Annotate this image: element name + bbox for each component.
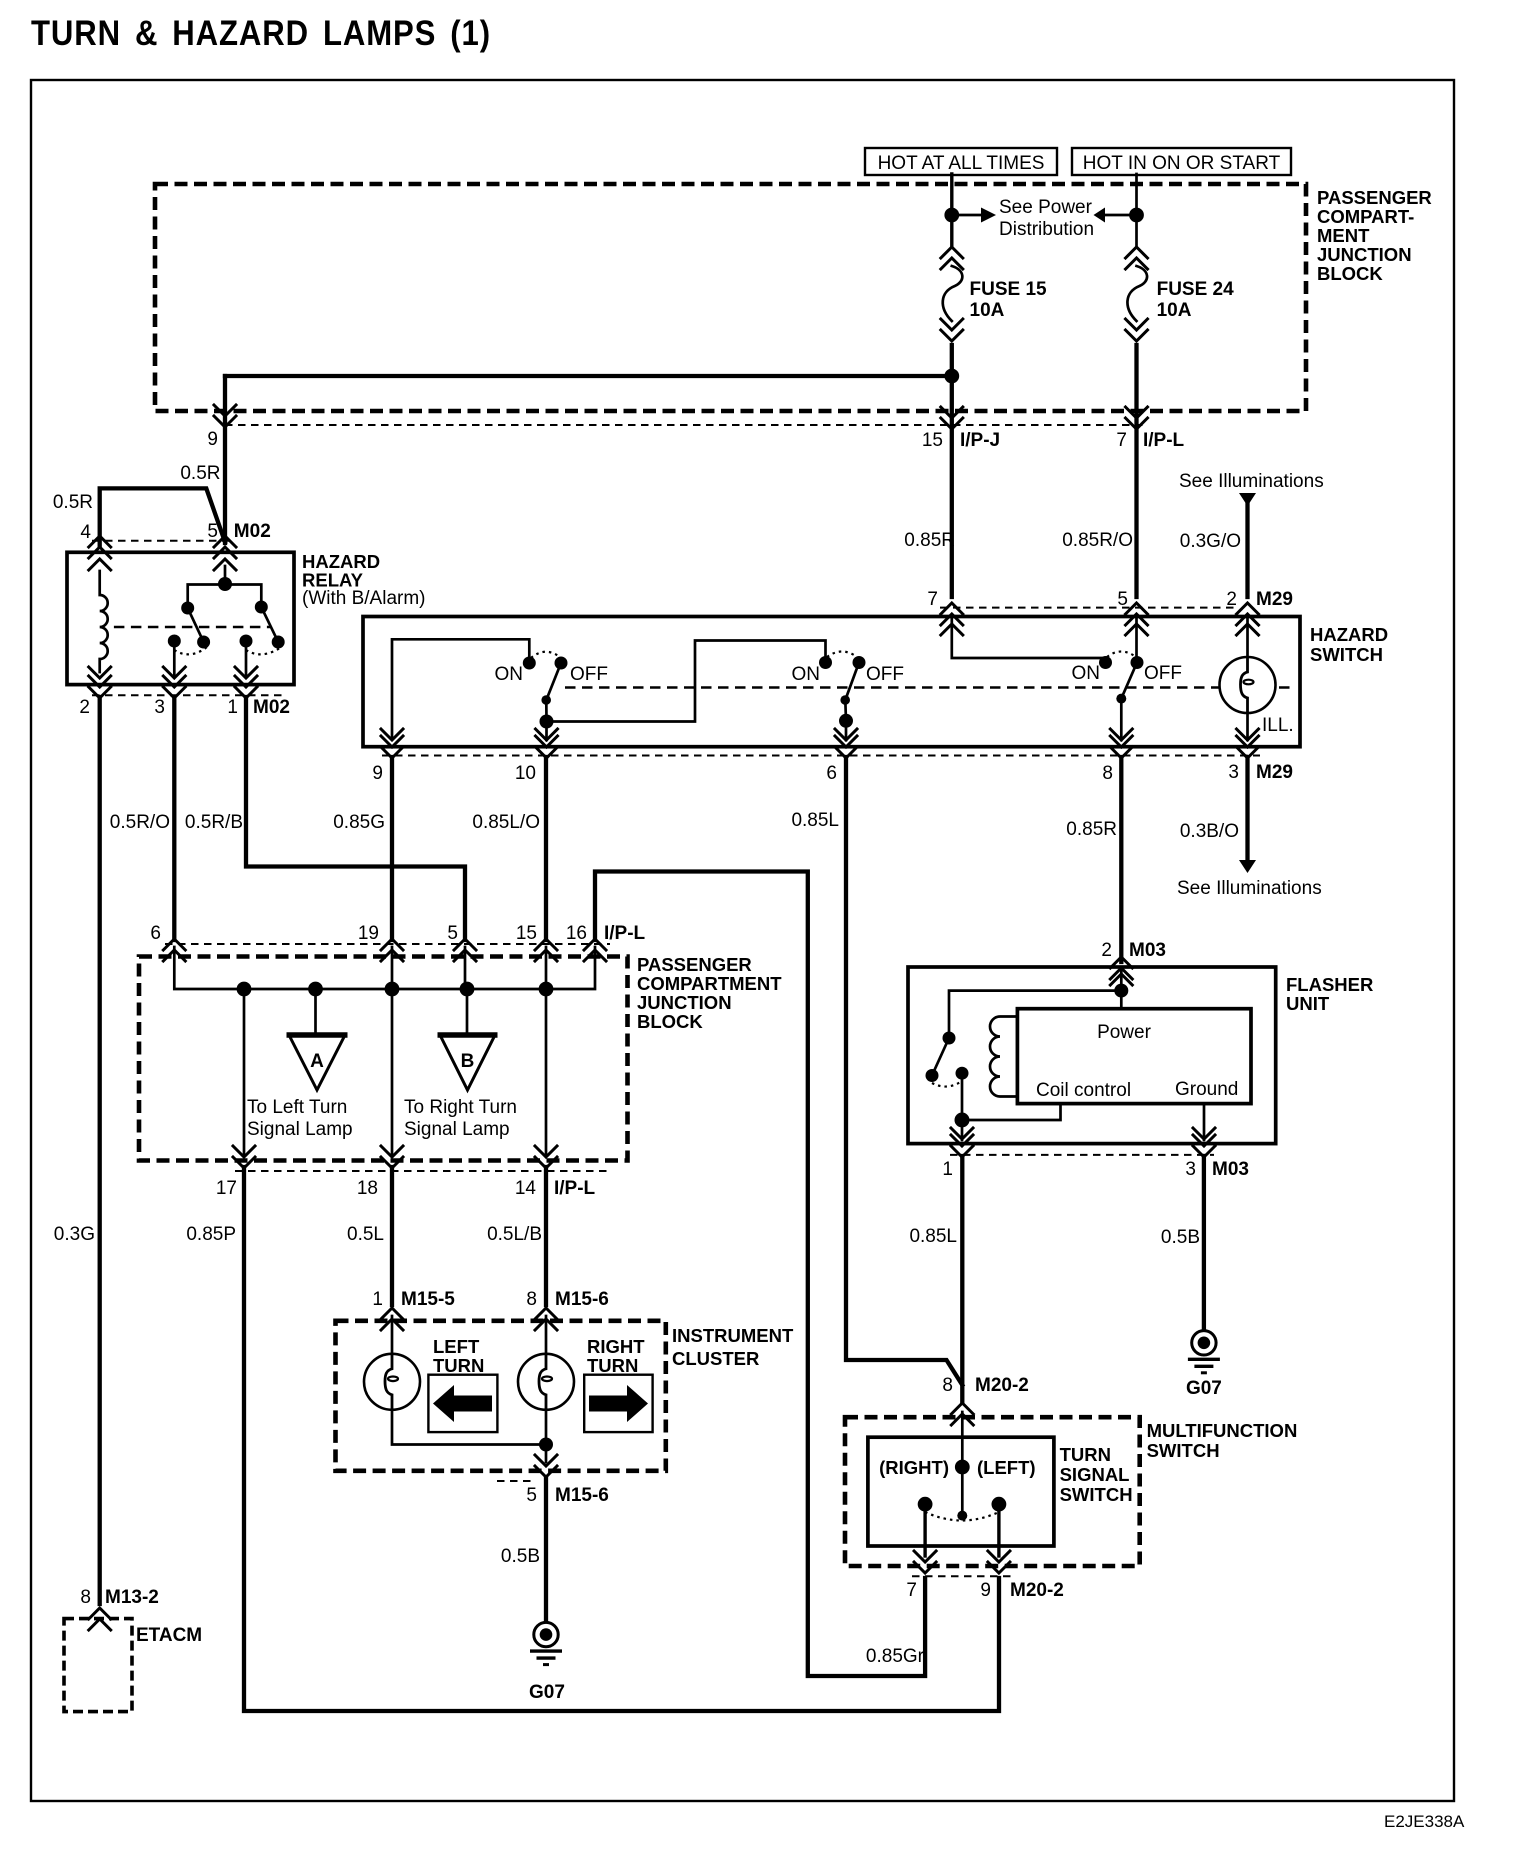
wire bus to connector 17: [243, 989, 246, 1155]
wire 0.85L flasher pin 1 down to M20-2 pin 8: [960, 1156, 964, 1402]
flasher blade: [932, 1038, 949, 1076]
passenger compartment junction block (top): [155, 184, 1306, 411]
svg-text:10A: 10A: [970, 300, 1005, 321]
contact dot left fixed: [181, 602, 194, 615]
svg-text:2: 2: [1101, 940, 1112, 961]
instrument cluster dashed box: [336, 1321, 666, 1471]
svg-text:0.3B/O: 0.3B/O: [1180, 821, 1239, 842]
svg-text:7: 7: [927, 589, 938, 610]
svg-text:5: 5: [1117, 589, 1128, 610]
connector 18 I/P-L bottom: [381, 1146, 403, 1168]
svg-text:BLOCK: BLOCK: [637, 1011, 703, 1032]
svg-text:3: 3: [1185, 1159, 1196, 1180]
svg-text:MENT: MENT: [1317, 225, 1370, 246]
svg-text:Coil control: Coil control: [1036, 1080, 1131, 1101]
lamp ILL wire bottom: [1246, 713, 1249, 740]
thin dashed connector row M29 bottom: [382, 755, 1260, 757]
svg-text:M29: M29: [1256, 762, 1293, 783]
svg-text:0.85R/O: 0.85R/O: [1062, 530, 1133, 551]
connector 8 M20-2: [951, 1403, 973, 1425]
svg-text:G07: G07: [529, 1682, 565, 1703]
svg-text:0.5L/B: 0.5L/B: [487, 1224, 542, 1245]
svg-text:6: 6: [826, 763, 837, 784]
svg-text:B: B: [461, 1051, 475, 1072]
svg-text:FLASHER: FLASHER: [1286, 974, 1373, 995]
svg-text:LEFT: LEFT: [433, 1336, 480, 1357]
relay internal dashed line: [114, 626, 270, 629]
svg-text:0.5L: 0.5L: [347, 1224, 384, 1245]
svg-text:0.85L/O: 0.85L/O: [472, 812, 540, 833]
wire fuse 15 to connector 15 I/P-J: [950, 345, 954, 597]
relay blade right: [261, 607, 278, 642]
svg-text:2: 2: [79, 697, 90, 718]
svg-text:M20-2: M20-2: [1010, 1580, 1064, 1601]
wire 0.5B cluster pin 5 down to ground: [544, 1478, 548, 1621]
svg-text:I/P-L: I/P-L: [604, 923, 646, 944]
hazard switch internal dashed line: [565, 686, 1292, 689]
svg-text:SWITCH: SWITCH: [1147, 1440, 1220, 1461]
svg-text:ON: ON: [792, 664, 821, 685]
node flasher power: [1114, 984, 1128, 998]
svg-text:HAZARD: HAZARD: [1310, 624, 1388, 645]
node HOT IN ON OR START: [1072, 148, 1291, 175]
wire to See Power Distribution (right arrow): [952, 214, 982, 217]
wire junction bus: [174, 947, 595, 989]
contact dot flasher top: [943, 1032, 956, 1045]
svg-text:HOT IN ON OR START: HOT IN ON OR START: [1083, 153, 1281, 174]
wire 0.5R/B pin1 jog down to junction 5: [246, 697, 465, 940]
svg-text:5: 5: [447, 923, 458, 944]
ground G07 (right): [1188, 1331, 1220, 1373]
svg-text:15: 15: [922, 430, 943, 451]
fuse FUSE 24 10A: [1126, 247, 1148, 341]
node coil control junction: [955, 1113, 970, 1128]
svg-text:OFF: OFF: [1144, 663, 1182, 684]
connector 1 M02: [235, 676, 257, 698]
pin 3 exit arrow: [1237, 729, 1259, 740]
thin dashed connector row M02 bottom: [92, 694, 282, 696]
wire 0.85R pin8 down to flasher pin 2: [1119, 757, 1123, 962]
svg-text:M03: M03: [1129, 940, 1166, 961]
pin 2 entry arrow: [1237, 624, 1259, 635]
multifunction switch dashed box: [845, 1417, 1140, 1566]
svg-text:0.5R: 0.5R: [180, 463, 220, 484]
contact dot sw3 OFF: [1131, 656, 1144, 669]
thin dashed connector row I/P-L top: [165, 943, 610, 945]
node cluster lamp junction: [539, 1438, 553, 1452]
svg-text:See Power: See Power: [999, 197, 1093, 218]
pin 2 entry arrow: [1110, 974, 1132, 985]
svg-text:M15-6: M15-6: [555, 1485, 609, 1506]
svg-text:19: 19: [358, 923, 379, 944]
wire 0.5R jog from pin 9 to relay pins 4/5: [100, 488, 225, 545]
svg-text:0.5B: 0.5B: [1161, 1227, 1200, 1248]
svg-text:0.3G/O: 0.3G/O: [1180, 531, 1241, 552]
contact dot RIGHT: [918, 1497, 933, 1512]
ground G07 (left): [530, 1622, 562, 1664]
contact dot sw2 OFF: [853, 656, 866, 669]
svg-text:9: 9: [980, 1580, 991, 1601]
lamp LEFT TURN indicator: [364, 1354, 420, 1410]
svg-text:PASSENGER: PASSENGER: [1317, 187, 1432, 208]
wire sw1 pole to pin 10: [545, 722, 548, 741]
relay blade left: [188, 608, 204, 642]
svg-text:E2JE338A: E2JE338A: [1384, 1812, 1465, 1831]
svg-text:BLOCK: BLOCK: [1317, 263, 1383, 284]
switch blade sw1: [546, 663, 561, 722]
pin 5 entry arrow: [1126, 624, 1148, 635]
svg-text:COMPART-: COMPART-: [1317, 206, 1414, 227]
pin 3 exit arrow: [1193, 1128, 1215, 1139]
svg-text:FUSE 15: FUSE 15: [970, 279, 1048, 300]
contact dot sw1 ON: [523, 657, 536, 670]
flasher inner module box: [1017, 1009, 1251, 1104]
wire pin 9 to contact 1 ON: [392, 639, 529, 738]
svg-text:14: 14: [515, 1178, 537, 1199]
wire 0.3B/O pin3 down to See Illuminations: [1245, 757, 1249, 860]
svg-text:0.3G: 0.3G: [54, 1224, 95, 1245]
wire right lamp to junction: [545, 1410, 548, 1462]
connector 9 M29: [381, 736, 403, 758]
svg-text:ON: ON: [1072, 663, 1101, 684]
svg-text:(LEFT): (LEFT): [977, 1457, 1036, 1478]
thin dashed row M15-6 bottom: [497, 1480, 536, 1482]
connector 19 I/P-L: [381, 939, 403, 961]
wire bus to connector 14: [545, 989, 548, 1155]
wire pin 2 to power node: [1120, 968, 1123, 1009]
svg-text:M15-6: M15-6: [555, 1289, 609, 1310]
svg-text:Signal Lamp: Signal Lamp: [404, 1119, 510, 1140]
svg-text:Ground: Ground: [1175, 1079, 1238, 1100]
svg-text:9: 9: [372, 763, 383, 784]
connector 6 I/P-L: [163, 939, 185, 961]
svg-text:ETACM: ETACM: [136, 1625, 202, 1646]
svg-text:TURN: TURN: [1060, 1444, 1111, 1465]
connector 7 I/P-L: [1126, 407, 1148, 429]
wire pole down to coil control node: [961, 1073, 964, 1120]
pin 9 exit arrow: [381, 729, 403, 740]
wire 0.85L pin6 down and jog to M20-2 pin 8: [846, 757, 962, 1385]
connector 2 M29: [1237, 603, 1259, 625]
svg-text:G07: G07: [1186, 1378, 1222, 1399]
connector 8 M15-6: [535, 1308, 557, 1330]
svg-text:8: 8: [526, 1289, 537, 1310]
connector 5 M29: [1126, 603, 1148, 625]
svg-text:See Illuminations: See Illuminations: [1177, 878, 1322, 899]
wire 0.5B flasher pin 3 down to ground: [1202, 1156, 1206, 1329]
right turn arrow icon: [584, 1375, 652, 1432]
svg-text:A: A: [310, 1051, 324, 1072]
wire 0.3G/O down to hazard switch pin 2: [1245, 504, 1249, 597]
svg-text:0.85R: 0.85R: [904, 530, 955, 551]
pin 10 exit arrow: [536, 729, 558, 740]
flasher coil: [990, 1017, 1017, 1097]
svg-text:1: 1: [942, 1159, 953, 1180]
svg-text:(RIGHT): (RIGHT): [879, 1457, 949, 1478]
dotted travel arc right: [246, 647, 282, 654]
wire bus to triangle A: [314, 989, 317, 1035]
junction block 2 dashed box: [139, 957, 628, 1161]
connector 15 I/P-J: [941, 407, 963, 429]
pin 3 exit arrow: [163, 667, 185, 678]
node contact feed: [218, 577, 232, 591]
svg-text:Power: Power: [1097, 1022, 1152, 1043]
svg-text:INSTRUMENT: INSTRUMENT: [672, 1325, 794, 1346]
svg-text:(With B/Alarm): (With B/Alarm): [302, 588, 426, 609]
lamp RIGHT TURN indicator: [518, 1354, 574, 1410]
wire pin 8 into switch: [961, 1412, 964, 1516]
wire left lamp to junction: [392, 1410, 546, 1445]
wire pin 7 feed to contact 3 ON: [952, 618, 1103, 661]
flasher pole dot: [956, 1067, 969, 1080]
svg-text:0.85L: 0.85L: [909, 1226, 957, 1247]
lamp ILL wire top: [1246, 618, 1249, 658]
svg-text:HOT AT ALL TIMES: HOT AT ALL TIMES: [878, 153, 1045, 174]
connector 14 I/P-L bottom: [535, 1146, 557, 1168]
svg-text:1: 1: [227, 697, 238, 718]
wire pin 5 to contact feed node: [224, 566, 227, 584]
connector 10 M29: [536, 736, 558, 758]
svg-text:I/P-J: I/P-J: [960, 430, 1000, 451]
svg-text:5: 5: [526, 1485, 537, 1506]
svg-text:0.85R: 0.85R: [1066, 819, 1117, 840]
svg-text:0.5R: 0.5R: [53, 492, 93, 513]
svg-text:3: 3: [1228, 762, 1239, 783]
lamp ILL: [1220, 657, 1276, 713]
svg-text:M02: M02: [234, 521, 271, 542]
wire sw3 pole to pin 8: [1120, 699, 1123, 740]
node feed dot between RIGHT and LEFT: [955, 1460, 970, 1475]
svg-text:0.85Gr: 0.85Gr: [866, 1646, 925, 1667]
wire 0.85G pin9 down to junction 19: [390, 757, 394, 940]
node sw1 pole: [540, 715, 554, 729]
wire node to Coil control pin: [962, 1104, 1061, 1120]
svg-text:PASSENGER: PASSENGER: [637, 954, 752, 975]
svg-text:COMPARTMENT: COMPARTMENT: [637, 973, 782, 994]
thin dashed row M20-2 bottom: [912, 1575, 1016, 1577]
wire 0.5L connector 18 down to cluster pin 1: [390, 1167, 394, 1305]
connector 8 M29: [1110, 736, 1132, 758]
pin 1 exit arrow: [235, 667, 257, 678]
node A (to left turn signal lamp): [289, 1035, 345, 1090]
connector 9 M20-2: [988, 1551, 1010, 1573]
svg-text:M29: M29: [1256, 589, 1293, 610]
wire Ground pin down to pin 3: [1203, 1104, 1206, 1140]
relay pole right: [240, 635, 253, 648]
fuse FUSE 15 10A: [941, 247, 963, 341]
svg-text:To Right Turn: To Right Turn: [404, 1097, 517, 1118]
svg-text:3: 3: [154, 697, 165, 718]
svg-text:7: 7: [1116, 430, 1127, 451]
thin dashed connector row M29 top: [940, 607, 1239, 609]
switch S1: hazard switch box: [363, 617, 1300, 747]
wire 16 I/P-L jog from junction to 0.85Gr run: [595, 872, 925, 1677]
wire pin 1 into left lamp: [391, 1316, 394, 1354]
wire bus to triangle B: [466, 989, 469, 1035]
junction dot: [944, 369, 959, 384]
svg-text:I/P-L: I/P-L: [554, 1178, 596, 1199]
connector 2 M03: [1110, 957, 1132, 979]
thin dashed connector row M03 bottom: [950, 1154, 1214, 1156]
svg-text:M03: M03: [1212, 1159, 1249, 1180]
thin dashed connector row I/P: [225, 424, 1148, 426]
svg-text:8: 8: [80, 1587, 91, 1608]
svg-text:To Left Turn: To Left Turn: [247, 1097, 347, 1118]
svg-text:8: 8: [1102, 763, 1113, 784]
dotted travel arc left: [174, 647, 207, 654]
connector 5 I/P-L: [454, 939, 476, 961]
svg-text:4: 4: [80, 522, 91, 543]
svg-text:0.85G: 0.85G: [333, 812, 385, 833]
dotted travel arc flasher: [932, 1081, 962, 1087]
wire pin 5 to contact sw3 OFF: [1135, 618, 1138, 658]
connector 3 M29: [1237, 736, 1259, 758]
wire from HOT IN ON OR START to fuse 24: [1135, 174, 1138, 245]
svg-text:9: 9: [207, 429, 218, 450]
connector 3 M03: [1193, 1135, 1215, 1157]
wire power node to switch contact: [949, 991, 1121, 1035]
pin 2 exit arrow: [89, 667, 111, 678]
svg-text:M15-5: M15-5: [401, 1289, 455, 1310]
svg-text:TURN & HAZARD LAMPS (1): TURN & HAZARD LAMPS (1): [31, 14, 491, 53]
relay U: hazard relay box: [67, 552, 294, 684]
svg-text:2: 2: [1226, 589, 1237, 610]
connector 1 M03: [951, 1135, 973, 1157]
wire from See Power Distribution (left arrow): [1104, 214, 1137, 217]
wire 0.5L/B connector 14 down to cluster pin 8: [544, 1167, 548, 1305]
connector 3 M02: [163, 676, 185, 698]
thin dashed connector row I/P-L bottom: [235, 1170, 612, 1172]
wire 0.85P connector 17 down to bottom run: [244, 1167, 999, 1711]
wire 0.85L/O pin10 down to junction 15: [544, 757, 548, 940]
relay coil: [100, 571, 108, 672]
svg-text:5: 5: [207, 521, 218, 542]
connector 16 I/P-L: [584, 939, 606, 961]
svg-text:TURN: TURN: [587, 1355, 638, 1376]
ETACM dashed box: [64, 1619, 132, 1712]
pin 7 entry arrow: [941, 624, 963, 635]
left turn arrow icon: [428, 1375, 497, 1432]
svg-text:M02: M02: [253, 697, 290, 718]
svg-text:ILL.: ILL.: [1262, 715, 1294, 736]
contact dot sw2 ON: [819, 656, 832, 669]
contact dot sw3 ON: [1099, 656, 1112, 669]
svg-text:MULTIFUNCTION: MULTIFUNCTION: [1147, 1420, 1298, 1441]
svg-text:6: 6: [150, 923, 161, 944]
svg-text:SWITCH: SWITCH: [1310, 644, 1383, 665]
svg-text:0.85L: 0.85L: [791, 810, 839, 831]
switch blade sw2: [845, 663, 859, 721]
svg-text:1: 1: [372, 1289, 383, 1310]
connector 5 M15-6: [535, 1455, 557, 1477]
contact dot sw1 OFF: [555, 657, 568, 670]
wire bus to connector 18: [391, 989, 394, 1155]
svg-text:0.5R/O: 0.5R/O: [110, 812, 170, 833]
connector 17 I/P-L bottom: [233, 1146, 255, 1168]
svg-text:TURN: TURN: [433, 1355, 484, 1376]
wire horizontal feed to relay branch: [225, 374, 952, 378]
connector 1 M15-5: [381, 1308, 403, 1330]
svg-text:ON: ON: [495, 664, 524, 685]
connector 7 M29: [941, 603, 963, 625]
connector 8 M13-2: [89, 1608, 111, 1630]
wire junction block pin 9 branch down: [223, 376, 227, 543]
flasher unit box: [908, 967, 1276, 1144]
node blade pivot: [957, 1511, 967, 1521]
svg-text:SIGNAL: SIGNAL: [1060, 1464, 1130, 1485]
connector 9: [214, 405, 236, 427]
svg-text:10A: 10A: [1157, 300, 1192, 321]
junction dot: [944, 208, 959, 223]
wire sw2 pole to pin 6: [845, 721, 848, 740]
switch blade sw3: [1121, 663, 1137, 699]
pin 6 exit arrow: [835, 729, 857, 740]
contact dot right fixed: [255, 601, 268, 614]
junction dot: [1129, 208, 1144, 223]
connector 15 I/P-L: [535, 939, 557, 961]
wire pin 8 into right lamp: [545, 1316, 548, 1354]
wire sw1 pole jog to contact 2 ON: [547, 641, 826, 722]
pin 5 entry arrow: [214, 559, 236, 570]
svg-text:8: 8: [942, 1375, 953, 1396]
svg-text:OFF: OFF: [570, 664, 608, 685]
wire fuse 24 down to connector 7 I/P-L: [1134, 345, 1138, 597]
svg-text:Distribution: Distribution: [999, 219, 1094, 240]
svg-text:18: 18: [357, 1178, 378, 1199]
svg-text:RIGHT: RIGHT: [587, 1336, 645, 1357]
wire node down to pin 1: [961, 1120, 964, 1140]
svg-text:See Illuminations: See Illuminations: [1179, 471, 1324, 492]
junction dots on bus: [237, 982, 252, 997]
svg-text:7: 7: [906, 1580, 917, 1601]
dotted travel arc turn switch: [925, 1512, 999, 1521]
dotted travel arc sw1: [531, 652, 560, 658]
wire 0.3G pin2 down to M13-2: [98, 697, 102, 1604]
svg-text:FUSE 24: FUSE 24: [1157, 279, 1235, 300]
wire 0.5R/O pin3 down to junction 6: [172, 697, 176, 940]
connector 4 M02: [89, 536, 111, 558]
svg-text:JUNCTION: JUNCTION: [1317, 244, 1412, 265]
svg-text:M13-2: M13-2: [105, 1587, 159, 1608]
connector 6 M29: [835, 736, 857, 758]
pin 8 exit arrow: [1110, 729, 1132, 740]
node sw2 pole: [839, 714, 853, 728]
svg-text:M20-2: M20-2: [975, 1375, 1029, 1396]
wire RIGHT contact down to pin 7: [923, 1504, 926, 1556]
thin dashed connector row M02 top: [92, 540, 232, 542]
dotted travel arc sw3: [1107, 652, 1136, 658]
wire feed branches to fixed contacts: [188, 585, 262, 609]
connector 5 M02: [214, 536, 236, 558]
svg-text:CLUSTER: CLUSTER: [672, 1348, 759, 1369]
svg-text:0.5B: 0.5B: [501, 1546, 540, 1567]
relay pole left: [168, 635, 181, 648]
wire LEFT contact down to pin 9: [997, 1504, 1000, 1556]
svg-text:JUNCTION: JUNCTION: [637, 992, 732, 1013]
svg-text:Signal Lamp: Signal Lamp: [247, 1119, 353, 1140]
wire from HOT AT ALL TIMES to fuse 15: [950, 174, 953, 245]
connector 7 M20-2: [914, 1551, 936, 1573]
svg-text:16: 16: [566, 923, 587, 944]
node HOT AT ALL TIMES: [865, 148, 1057, 175]
svg-text:OFF: OFF: [866, 664, 904, 685]
pin 1 exit arrow: [951, 1128, 973, 1139]
turn signal switch inner box: [868, 1437, 1054, 1546]
pin 4 entry arrow: [89, 559, 111, 570]
svg-text:0.85P: 0.85P: [186, 1224, 236, 1245]
svg-text:10: 10: [515, 763, 536, 784]
svg-text:0.5R/B: 0.5R/B: [185, 812, 243, 833]
